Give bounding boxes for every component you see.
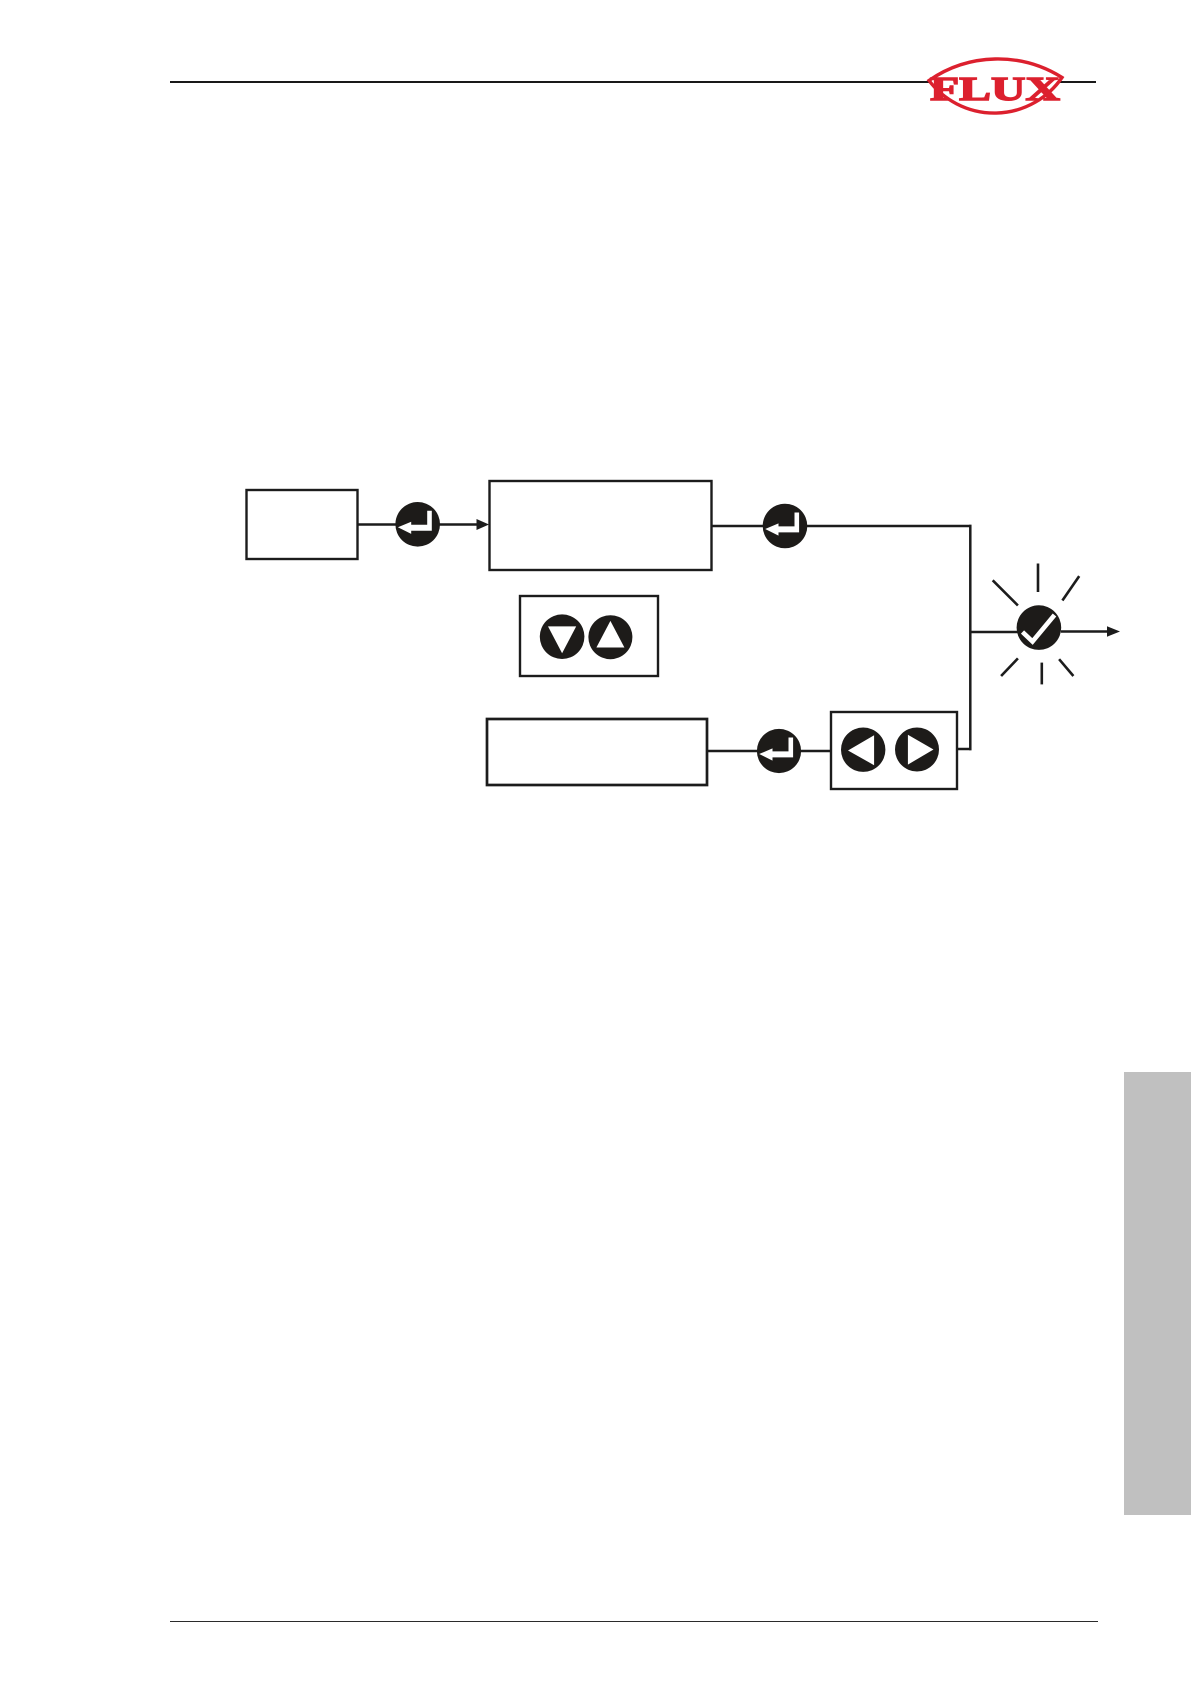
svg-text:FLUX: FLUX bbox=[930, 71, 1061, 108]
